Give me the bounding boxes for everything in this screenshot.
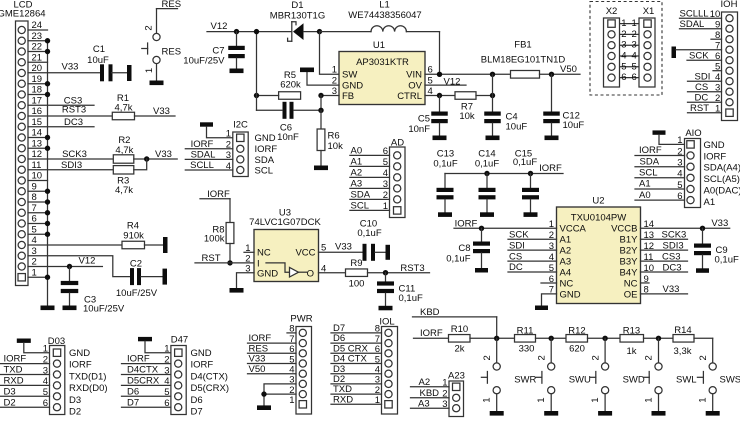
wire SDA to AD pin 2	[350, 190, 390, 201]
junction CTRL/C5	[437, 93, 442, 98]
ground for switch SWU	[544, 411, 558, 416]
wire C11 to ground	[385, 293, 387, 306]
wire SCK3 from U2 pin 13	[641, 230, 688, 241]
wire switch SWD to ground	[604, 394, 606, 411]
connector X1	[632, 6, 655, 87]
svg-text:2: 2	[482, 355, 493, 360]
svg-text:2: 2	[590, 355, 601, 360]
svg-text:A0: A0	[639, 190, 651, 201]
wire A2 to A23 pin 1	[411, 377, 450, 388]
wire CTRL node to C5	[439, 96, 441, 112]
svg-text:0,1uF: 0,1uF	[513, 157, 537, 168]
junction IORF/C15	[528, 171, 533, 176]
wire V12 rail	[207, 31, 292, 33]
wire IORF to D47 pin 2	[122, 354, 171, 365]
svg-text:RST: RST	[202, 253, 221, 264]
node V33	[62, 61, 79, 72]
wire R9 to RST3	[368, 263, 430, 274]
wire SCL to AD pin 1	[350, 201, 390, 212]
wire C12 to ground	[551, 123, 553, 135]
wire V12 rail down to R5/C6	[256, 32, 258, 111]
svg-text:IORF: IORF	[704, 151, 727, 162]
svg-text:C1: C1	[93, 44, 105, 55]
svg-text:VIN: VIN	[406, 70, 422, 81]
capacitor C1 10uF	[87, 44, 112, 81]
wire LCD pin 4 to R4	[28, 244, 122, 246]
svg-text:IOH: IOH	[721, 0, 738, 10]
svg-text:2: 2	[632, 29, 637, 40]
resistor R12 620	[566, 326, 588, 355]
svg-text:IORF: IORF	[639, 145, 662, 156]
svg-text:V33: V33	[155, 149, 172, 160]
wire U1 VIN pin 6 to FB1	[425, 73, 511, 75]
resistor R2 4,7k	[113, 135, 134, 163]
wire A1 to AD pin 5	[350, 157, 390, 168]
svg-text:100k: 100k	[204, 234, 225, 245]
connector AIO	[677, 128, 740, 208]
ground for C4	[486, 136, 500, 141]
svg-text:3: 3	[621, 40, 626, 51]
resistor R10 2k	[449, 324, 471, 355]
wire IORF (C13-C15 rail)	[445, 163, 563, 174]
svg-text:D5(CRX): D5(CRX)	[191, 383, 230, 394]
svg-text:MBR130T1G: MBR130T1G	[270, 11, 325, 22]
resistor R1 4,7k	[112, 93, 134, 120]
svg-text:910k: 910k	[123, 231, 144, 242]
wire FB node to R6	[320, 110, 322, 129]
svg-text:NC: NC	[560, 278, 574, 289]
wire RST to U3 pin 2	[195, 253, 254, 264]
inductor L1 WE74438356047	[320, 0, 422, 32]
wire A0 to AD pin 6	[350, 146, 390, 157]
junction R2/R3	[144, 156, 149, 161]
wire C6 left	[257, 109, 283, 111]
svg-text:OE: OE	[624, 289, 638, 300]
svg-text:NC: NC	[257, 248, 271, 259]
wire RXD to IOL pin 1	[331, 394, 382, 405]
resistor R7 10k	[455, 92, 476, 122]
wire IORF to AIO pin 2	[635, 145, 685, 156]
capacitor C13 0,1uF	[433, 149, 457, 200]
svg-text:GND: GND	[257, 269, 278, 280]
svg-text:D4(CTX): D4(CTX)	[191, 371, 228, 382]
svg-text:10k: 10k	[328, 141, 344, 152]
wire SDA to AIO pin 3	[635, 156, 685, 167]
node RES (top)	[157, 0, 182, 10]
diode D1 MBR130T1G (Schottky)	[270, 0, 325, 41]
wire node to switch SWL	[658, 338, 660, 363]
svg-text:5: 5	[321, 242, 326, 253]
wire node to switch SWR	[496, 338, 498, 363]
wire V12 node to C3	[69, 267, 71, 281]
IC U3 74LVC1G07DCK (buffer)	[245, 207, 326, 281]
svg-text:620k: 620k	[280, 80, 301, 91]
resistor R9 100	[346, 258, 368, 290]
ground for AIO pin 1	[653, 130, 666, 134]
svg-text:RST3: RST3	[62, 105, 86, 116]
svg-text:A3: A3	[560, 256, 572, 267]
wire KBD to A23 pin 2	[411, 388, 450, 399]
wire D2 to D03 pin 6	[0, 397, 50, 408]
resistor R14 3,3k	[673, 325, 694, 357]
svg-text:I: I	[257, 258, 260, 269]
wire C14 to ground	[486, 199, 488, 212]
svg-text:10uF: 10uF	[87, 55, 109, 66]
ground for I2C pin 1	[200, 122, 213, 126]
wire U3 VCC pin 5 to V33	[319, 242, 363, 253]
wire D2 to IOL pin 3	[331, 374, 382, 385]
resistor R5 620k	[279, 70, 301, 99]
ground for IOH pin 7	[672, 47, 677, 59]
wire A0 to AIO pin 6	[635, 190, 685, 201]
svg-text:FB1: FB1	[514, 39, 531, 50]
svg-text:SWD: SWD	[623, 375, 645, 386]
junction VIN/L1	[437, 72, 442, 77]
wire IORF to U2 pin 1 VCCA	[454, 219, 557, 230]
svg-text:IORF: IORF	[191, 360, 214, 371]
ground for U3 pin 3	[230, 288, 244, 293]
svg-text:1: 1	[698, 397, 709, 402]
svg-text:V12: V12	[444, 76, 461, 87]
wire C2 to ground	[141, 276, 163, 278]
wire I2C pin 1 to ground	[207, 127, 233, 138]
svg-text:C2: C2	[130, 258, 142, 269]
svg-text:RST3: RST3	[400, 263, 424, 274]
wire A3 to A23 pin 3	[411, 398, 450, 409]
svg-text:10uF/25V: 10uF/25V	[83, 303, 125, 314]
svg-text:C8: C8	[458, 243, 470, 254]
svg-text:5: 5	[621, 61, 626, 72]
wire V33 to U2 pin 8 OE	[641, 284, 688, 295]
svg-text:A1: A1	[560, 235, 572, 246]
svg-text:10uF/25V: 10uF/25V	[116, 288, 158, 299]
svg-text:IORF: IORF	[420, 328, 443, 339]
wire node to switch SWU	[550, 338, 552, 363]
wire D7 to D47 pin 6	[122, 397, 171, 408]
node V12 (input rail)	[211, 21, 228, 32]
svg-text:X2: X2	[606, 6, 618, 17]
wire U3 output pin 4 to R9	[319, 272, 346, 274]
svg-text:1k: 1k	[626, 346, 636, 357]
connector D03	[43, 336, 108, 418]
svg-text:1: 1	[144, 68, 155, 73]
svg-text:10uF/25V: 10uF/25V	[183, 56, 225, 67]
wire C10 to ground	[375, 251, 386, 253]
ground for C1	[127, 65, 132, 81]
ground for U2 pin 7	[535, 306, 548, 311]
node V50	[560, 64, 577, 75]
wire C6 right to FB node	[294, 96, 322, 111]
svg-text:SCL: SCL	[255, 166, 273, 177]
junction R5/C6 left node	[254, 93, 259, 98]
ground for C14	[480, 212, 494, 217]
wire SDAL to IOH pin 9	[680, 19, 722, 30]
wire C5 to ground	[439, 123, 441, 135]
resistor R11 330	[515, 326, 536, 355]
wire switch RES to ground	[156, 64, 158, 81]
wire IOH pin 5 stub	[713, 70, 722, 72]
wire SCLL to I2C pin 4	[185, 160, 233, 171]
wire U1 GND pin 2 to ground	[307, 72, 339, 85]
wire CS to U2 pin 4	[508, 251, 557, 262]
ground for C7	[230, 69, 244, 74]
svg-text:SDA: SDA	[255, 155, 275, 166]
wire U1 OV pin 5 to V12	[425, 76, 466, 87]
svg-text:D47: D47	[171, 335, 188, 346]
wire V33 from U2 pin 14 VCCB	[641, 218, 730, 229]
svg-text:GME12864: GME12864	[0, 8, 46, 19]
junction V50/C12	[549, 72, 554, 77]
capacitor C11 0,1uF	[377, 273, 423, 304]
svg-text:IORF: IORF	[539, 163, 562, 174]
capacitor C7 10uF/25V	[183, 45, 244, 66]
svg-text:1: 1	[644, 397, 655, 402]
svg-text:D6: D6	[191, 395, 203, 406]
ground for C8	[475, 268, 488, 273]
wire SCK to U2 pin 2	[508, 229, 557, 240]
wire CS3 from LCD pin 17	[28, 95, 94, 106]
wire DC3 from LCD pin 15	[28, 117, 94, 128]
svg-text:6: 6	[621, 72, 626, 83]
svg-text:BLM18EG101TN1D: BLM18EG101TN1D	[481, 55, 566, 66]
svg-text:U2: U2	[592, 196, 604, 207]
junction C6/R6	[318, 108, 323, 113]
switch SWU (push-button)	[536, 355, 591, 402]
wire node to switch SWD	[604, 338, 606, 363]
connector LCD GME12864	[0, 0, 46, 286]
wire C8 to ground	[481, 253, 483, 268]
ground for C15	[524, 212, 538, 217]
junction R12/R13/SWD	[602, 336, 607, 341]
connector IOH	[710, 0, 738, 121]
svg-text:CTRL: CTRL	[397, 91, 422, 102]
wire U2 pin 9 stub	[641, 282, 650, 284]
svg-text:A1: A1	[639, 179, 651, 190]
junction R11/R12/SWU	[549, 336, 554, 341]
wire SW node to U1 pin 1	[320, 32, 340, 75]
wire SCLLL to IOH pin 10	[680, 8, 722, 19]
capacitor C3 10uF/25V	[61, 281, 125, 315]
resistor R13 1k	[620, 325, 644, 357]
svg-text:2k: 2k	[454, 344, 464, 355]
svg-text:SWS: SWS	[720, 375, 740, 386]
svg-text:3,3k: 3,3k	[674, 346, 692, 357]
svg-text:A2: A2	[560, 246, 572, 257]
svg-text:4,7k: 4,7k	[115, 185, 133, 196]
svg-text:VCC: VCC	[295, 248, 315, 259]
wire C4 to ground	[492, 123, 494, 135]
switch SWD (push-button)	[590, 355, 645, 402]
connector PWR	[287, 313, 313, 414]
junction V12 rail branch	[254, 29, 259, 34]
wire D6 to IOL pin 7	[331, 333, 382, 344]
wire D3 to IOL pin 4	[331, 364, 382, 375]
junction dots on LCD bus	[45, 38, 50, 280]
wire V12 to C7	[236, 32, 238, 46]
wire A2 to AD pin 4	[350, 168, 390, 179]
connector A23	[442, 370, 465, 416]
wire D3 to D03 pin 5	[0, 386, 50, 397]
wire IORF to D03 pin 2	[0, 354, 50, 365]
ground for C9	[696, 268, 709, 273]
node V12 (LCD)	[67, 256, 96, 270]
svg-text:SDA: SDA	[640, 156, 660, 167]
connector I2C	[226, 119, 278, 176]
junction VIN/C4	[490, 72, 495, 77]
ground for C11	[379, 306, 393, 311]
wire DC to U2 pin 5	[508, 262, 557, 273]
svg-text:RES: RES	[162, 47, 182, 58]
svg-text:AIO: AIO	[685, 128, 701, 139]
ground for C2	[163, 269, 168, 285]
wire IOH pin 7 to ground	[676, 49, 722, 51]
junction R13/R14/SWL	[656, 336, 661, 341]
svg-text:D7: D7	[191, 407, 203, 418]
svg-text:L1: L1	[379, 0, 390, 11]
ground for D03 pin 1	[17, 339, 31, 343]
switch SWR (push-button)	[481, 355, 536, 402]
svg-text:B2Y: B2Y	[620, 246, 639, 257]
connector IOL	[375, 316, 398, 414]
svg-text:B1Y: B1Y	[620, 235, 639, 246]
wire D6 to D47 pin 5	[122, 386, 171, 397]
wire V33 to PWR pin 5	[248, 354, 297, 365]
svg-text:SWU: SWU	[569, 375, 591, 386]
wire R6 to ground	[320, 151, 322, 166]
capacitor C12 10uF	[543, 110, 584, 131]
ground for D47 pin 1	[138, 337, 152, 341]
svg-text:FB: FB	[342, 91, 354, 102]
svg-text:R6: R6	[328, 131, 340, 142]
wire V50 to PWR pin 4	[248, 364, 297, 375]
svg-text:0,1uF: 0,1uF	[475, 159, 499, 170]
wire LCD pin 3 to C2	[28, 256, 130, 277]
wire R3 to junction	[134, 159, 147, 170]
junction SW node	[317, 29, 322, 34]
wire L1 to U1 VIN	[406, 32, 439, 75]
wire SDI to IOH pin 4	[688, 71, 722, 82]
wire TXD to D03 pin 3	[0, 365, 50, 376]
svg-text:3: 3	[632, 40, 637, 51]
wire KBD to R10/R11 node	[413, 307, 497, 338]
svg-text:100: 100	[349, 278, 365, 289]
svg-text:D3: D3	[69, 395, 81, 406]
ground for switch SWR	[490, 411, 504, 416]
svg-text:V33: V33	[335, 242, 352, 253]
svg-text:I2C: I2C	[233, 119, 248, 130]
capacitor C4 10uF	[484, 112, 527, 133]
wire switch SWU to ground	[550, 394, 552, 411]
IC U2 TXU0104PW (level shifter)	[549, 196, 654, 304]
switch SWS (push-button)	[697, 355, 740, 402]
wire switch SWS to ground	[712, 394, 714, 411]
svg-text:IORF: IORF	[255, 144, 278, 155]
svg-text:A4: A4	[560, 267, 572, 278]
wire C7 to ground	[236, 58, 238, 68]
svg-text:SWL: SWL	[676, 375, 697, 386]
svg-text:V12: V12	[211, 21, 228, 32]
svg-text:6: 6	[632, 72, 637, 83]
svg-text:B3Y: B3Y	[620, 256, 639, 267]
junction V33/C9	[700, 226, 705, 231]
svg-text:R10: R10	[451, 324, 468, 335]
wire U1 FB pin 3	[321, 95, 339, 97]
wire SCK to IOH pin 6	[687, 50, 722, 61]
ground for switch SWS	[706, 411, 720, 416]
svg-text:IORF: IORF	[69, 360, 92, 371]
wire C3 to ground	[69, 293, 71, 305]
svg-text:1: 1	[536, 397, 547, 402]
ground for C12	[545, 136, 559, 141]
svg-text:AP3031KTR: AP3031KTR	[356, 57, 409, 68]
ground for U1 pin 2	[300, 68, 314, 73]
wire D5 CRX to IOL pin 6	[331, 343, 382, 354]
node V33 (R2/R3)	[155, 149, 172, 160]
svg-text:GND: GND	[191, 348, 212, 359]
svg-text:1: 1	[590, 397, 601, 402]
svg-text:SWR: SWR	[514, 375, 536, 386]
wire R12 to R13	[588, 337, 621, 339]
svg-text:1: 1	[332, 65, 337, 76]
wire CS to IOH pin 3	[688, 82, 722, 93]
svg-text:RXD(D0): RXD(D0)	[69, 383, 108, 394]
junction R10/R11/SWR	[494, 336, 499, 341]
wire AIO pin 1 to ground	[659, 135, 685, 145]
svg-text:2: 2	[698, 355, 709, 360]
svg-text:D1: D1	[291, 0, 303, 11]
svg-text:1: 1	[164, 344, 169, 355]
wire R10 to R11	[470, 337, 515, 339]
wire ground bus of LCD	[47, 41, 49, 306]
capacitor C15 0,1uF	[513, 148, 539, 199]
ground for C10	[386, 245, 391, 260]
svg-text:V12: V12	[79, 256, 96, 267]
wire IORF to PWR pin 7	[248, 333, 297, 344]
svg-text:A0(DAC): A0(DAC)	[704, 186, 740, 197]
wire U2 pin 6 stub	[541, 282, 557, 284]
wire R7 to C4 node	[476, 95, 493, 97]
capacitor C6 10nF	[277, 102, 299, 143]
connector AD	[383, 137, 405, 217]
wire R1 to V33	[135, 106, 176, 117]
wire RES to PWR pin 6	[248, 343, 297, 354]
wire C9 to ground	[702, 255, 704, 268]
capacitor C10 0,1uF	[357, 218, 381, 260]
svg-text:10uF: 10uF	[506, 121, 528, 132]
ferrite bead FB1 BLM18EG101TN1D	[481, 39, 566, 78]
svg-text:SDA(A4): SDA(A4)	[704, 163, 740, 174]
wire A3 to AD pin 3	[350, 179, 390, 190]
svg-text:A23: A23	[448, 370, 465, 381]
svg-text:10nF: 10nF	[408, 124, 430, 135]
dashed outline around X2/X1	[590, 2, 662, 96]
svg-text:1: 1	[226, 129, 231, 140]
wire R11 to R12	[536, 337, 567, 339]
junction IORF/C14	[484, 171, 489, 176]
wire V33 from LCD pin 20	[28, 72, 100, 74]
connector X2	[604, 6, 627, 87]
wire C13 to ground	[444, 199, 446, 212]
wire TXD to IOL pin 2	[331, 384, 382, 395]
wire R13 to R14	[644, 337, 674, 339]
svg-text:WE74438356047: WE74438356047	[348, 10, 421, 21]
junction RST/R8	[227, 260, 232, 265]
wire U1 CTRL pin 4	[425, 95, 455, 97]
svg-text:V33: V33	[62, 61, 79, 72]
wire U3 pin 1 stub	[244, 251, 254, 253]
wire R8 to RST node	[229, 244, 231, 263]
capacitor C2 10uF/25V	[116, 258, 158, 299]
